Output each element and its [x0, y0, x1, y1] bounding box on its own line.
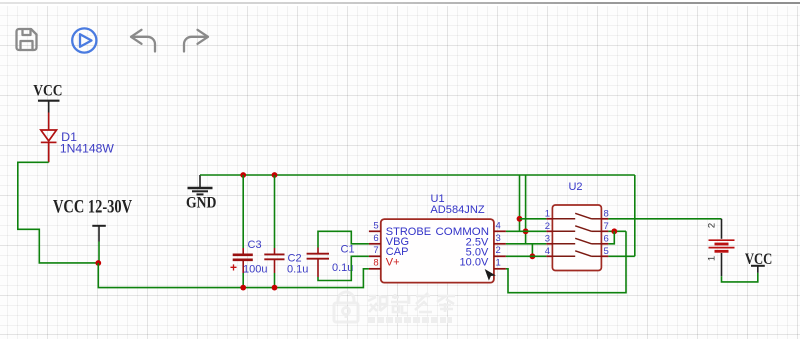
- toolbar save icon: [17, 29, 37, 50]
- svg-text:V+: V+: [386, 256, 400, 268]
- U2 pin 3: [546, 243, 552, 245]
- power flag VCC (right): [745, 251, 773, 273]
- junction U2 pin7: [611, 228, 617, 234]
- junction C2 bottom: [272, 285, 278, 291]
- U2 pin 8: [601, 218, 608, 220]
- capacitor C3 100u polarized: [233, 248, 253, 273]
- toolbar run/play icon: [72, 28, 96, 52]
- U2 pin 2: [546, 230, 552, 232]
- wire U1 pin4 to U2 pin2: [506, 230, 547, 232]
- switch element 2: [552, 226, 601, 232]
- switch U2 body: [552, 205, 601, 271]
- svg-text:VCC: VCC: [745, 251, 773, 268]
- wire power flag to node: [98, 242, 100, 263]
- power flag VCC (top left): [33, 83, 62, 113]
- svg-text:VCC 12-30V: VCC 12-30V: [53, 196, 132, 217]
- U1 pin 2 5.0V: [494, 255, 506, 257]
- U1 pin 5 STROBE: [369, 230, 381, 232]
- wire U1 pin3 to U2 pin3: [506, 243, 547, 245]
- svg-text:7: 7: [373, 245, 378, 256]
- switch element 3: [552, 238, 601, 244]
- junction node at VCC 12-30V: [95, 260, 101, 266]
- svg-text:AD584JNZ: AD584JNZ: [430, 204, 484, 216]
- wire top bus down (B) to COMMON row: [525, 175, 527, 244]
- capacitor C2 0.1u: [264, 248, 284, 273]
- wire bus to C2: [274, 175, 276, 248]
- svg-text:GND: GND: [186, 195, 217, 212]
- wire VCC to D1 anode: [48, 113, 50, 131]
- svg-text:1: 1: [707, 256, 718, 261]
- wire U2 pin5 to loop: [608, 255, 634, 257]
- svg-text:C1: C1: [341, 244, 355, 256]
- wire U1 pin2 to U2 pin4: [506, 255, 547, 257]
- U2 pin 1: [546, 218, 552, 220]
- svg-text:0.1u: 0.1u: [332, 262, 353, 274]
- U1 pin 4 COMMON: [494, 230, 506, 232]
- svg-text:1N4148W: 1N4148W: [60, 142, 114, 156]
- junction 5.0V row: [530, 253, 536, 259]
- U1 pin 8 V+: [369, 268, 381, 270]
- junction C2 top: [272, 172, 278, 178]
- U2 pin 7: [601, 230, 608, 232]
- svg-text:6: 6: [373, 233, 378, 244]
- top ground bus wire: [200, 174, 635, 176]
- U2 pin 5: [601, 255, 608, 257]
- battery cells: [709, 240, 735, 251]
- wire U2 pin6 riser to pin7: [608, 231, 614, 244]
- switch element 1: [552, 213, 601, 219]
- wire U2 pin8 to battery: [608, 218, 721, 220]
- wire bus to C3: [242, 175, 244, 248]
- svg-text:7: 7: [604, 221, 609, 232]
- svg-text:1: 1: [545, 208, 550, 219]
- toolbar undo icon: [131, 30, 155, 52]
- svg-text:U2: U2: [568, 181, 582, 193]
- svg-text:8: 8: [373, 257, 378, 268]
- junction U2 pin1 row: [517, 216, 523, 222]
- svg-text:10.0V: 10.0V: [460, 256, 489, 268]
- svg-text:4: 4: [545, 246, 550, 257]
- U1 pin 1 10.0V: [494, 268, 506, 270]
- diode D1 1N4148W: [41, 130, 57, 162]
- capacitor C1 0.1u: [307, 248, 329, 278]
- svg-text:8: 8: [604, 208, 609, 219]
- switch element 4: [552, 251, 601, 256]
- wire D1 cathode to VCC 12-30V node: [18, 162, 99, 263]
- svg-text:6: 6: [604, 233, 609, 244]
- wire C1 bottom to U1 pin7: [318, 256, 369, 280]
- svg-text:5: 5: [373, 221, 378, 232]
- svg-text:3: 3: [545, 233, 550, 244]
- junction C3 bottom: [240, 285, 246, 291]
- junction COMMON row: [523, 228, 529, 234]
- U1 pin 3 2.5V: [494, 243, 506, 245]
- battery BT pin 2 lead: [721, 219, 723, 239]
- junction C3 top: [240, 172, 246, 178]
- svg-text:1: 1: [496, 258, 501, 269]
- wire top bus down (A) to U2 pin1 row: [519, 175, 521, 231]
- svg-text:C3: C3: [248, 239, 262, 251]
- toolbar redo icon: [184, 30, 208, 52]
- svg-text:3: 3: [496, 233, 501, 244]
- battery pin 1 lead: [721, 253, 723, 276]
- svg-text:4: 4: [496, 220, 501, 231]
- wire C3 to bottom bus: [242, 273, 244, 288]
- watermark lock icon: [334, 292, 358, 322]
- wire battery to VCC flag: [722, 273, 758, 282]
- svg-text:2: 2: [496, 245, 501, 256]
- U1 pin 7 CAP: [369, 255, 381, 257]
- op-amp/IC U1 AD584JNZ body: [381, 219, 494, 283]
- U2 pin 4: [546, 255, 552, 257]
- wire U1 pin1 bottom run to U2 pin7 net: [506, 231, 626, 292]
- wire top bus down (C) right of U2: [634, 175, 636, 256]
- mouse cursor: [485, 269, 496, 281]
- svg-text:5: 5: [604, 246, 609, 257]
- U1 pin 6 VBG: [369, 243, 381, 245]
- wire C1 top to U1 pin6: [318, 231, 369, 247]
- svg-text:2: 2: [707, 223, 718, 228]
- power flag VCC 12-30V: [53, 196, 132, 241]
- svg-text:100u: 100u: [243, 264, 267, 276]
- svg-text:2: 2: [545, 221, 550, 232]
- wire C2 to bottom bus: [274, 273, 276, 288]
- wire node down to V+ bus: [98, 263, 369, 288]
- svg-text:0.1u: 0.1u: [287, 264, 308, 276]
- wire junction to U2 pin1: [520, 218, 547, 220]
- U2 pin 6: [601, 243, 608, 245]
- wire U2 pin7 to junction: [608, 230, 626, 232]
- svg-text:VCC: VCC: [33, 83, 62, 100]
- watermark characters: [368, 293, 455, 313]
- ground symbol GND: [188, 175, 213, 194]
- wire 5.0V row riser: [531, 244, 533, 256]
- svg-text:+: +: [230, 261, 237, 275]
